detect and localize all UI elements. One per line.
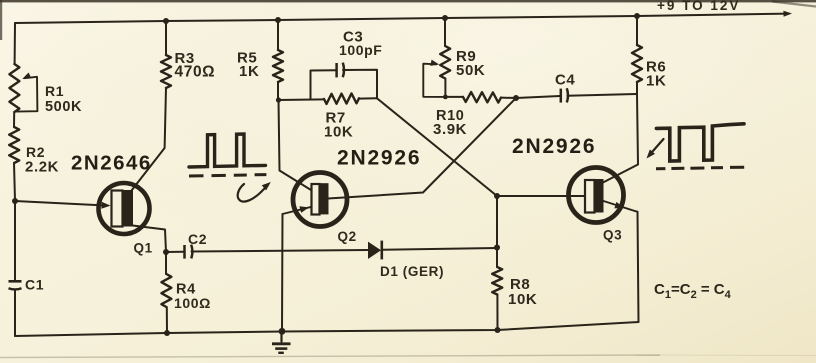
wire: +V supply top rail — [15, 11, 792, 23]
junction: R9 / R10 node — [443, 95, 448, 100]
capacitor C2 — [185, 245, 193, 259]
label: R7 10K — [324, 110, 353, 141]
junction: C2 tap on R4 branch — [163, 249, 169, 255]
svg-text:Q3: Q3 — [603, 228, 622, 243]
wire: R3/Q1-B2 vertical branch — [165, 21, 167, 55]
svg-text:2.2K: 2.2K — [25, 159, 59, 176]
waveform: Q3 output square wave — [656, 124, 744, 169]
wire: R9 branch vertical — [444, 18, 446, 46]
capacitor C4 — [561, 88, 568, 102]
svg-text:10K: 10K — [508, 291, 537, 308]
svg-text:50K: 50K — [456, 62, 485, 79]
transistor Q1 2N2646 (unijunction) — [99, 183, 150, 234]
wire: bottom ground rail — [15, 322, 639, 336]
svg-text:Q1: Q1 — [134, 241, 153, 256]
svg-text:2N2926: 2N2926 — [337, 147, 421, 170]
junction: top rail / R9 branch — [442, 15, 448, 21]
waveform pointer arrow (Q3 output) — [647, 139, 664, 159]
wire: Q2 emitter to ground rail — [281, 214, 284, 332]
svg-text:R1: R1 — [45, 83, 64, 99]
label: R6 1K — [646, 59, 666, 90]
junction: R5 / R7-C3 node — [276, 97, 281, 102]
resistor R2 2.2K — [9, 127, 19, 163]
svg-text:Q2: Q2 — [338, 229, 357, 244]
svg-text:D1 (GER): D1 (GER) — [380, 264, 444, 279]
svg-text:1K: 1K — [646, 73, 666, 90]
svg-text:2N2926: 2N2926 — [512, 135, 596, 158]
wire: cross-coupling diagonal (R7 node to Q3 base node) — [377, 98, 497, 196]
junction: Q3 base / cross-coupling node — [494, 193, 500, 199]
diode D1 (germanium) — [368, 241, 382, 260]
svg-text:100Ω: 100Ω — [174, 295, 211, 311]
label: R1 500K — [45, 83, 82, 115]
wire: R7/C3 parallel network frame — [279, 98, 325, 101]
wire: R8 vertical branch — [496, 196, 498, 247]
transistor Q2 2N2926 — [283, 173, 348, 227]
resistor R5 1K — [273, 50, 283, 82]
resistor R1 (potentiometer 500K) — [9, 64, 37, 112]
capacitor C1 — [9, 281, 22, 289]
label: R8 10K — [508, 276, 537, 308]
junction: bottom rail / R4 — [164, 330, 170, 336]
svg-text:2N2646: 2N2646 — [71, 152, 152, 175]
wire: R5 / Q2 base vertical branch — [277, 20, 279, 50]
label: R9 50K — [456, 48, 485, 79]
junction: top rail / R6 branch — [634, 13, 640, 19]
svg-text:C1: C1 — [25, 277, 44, 293]
resistor R6 1K — [632, 45, 642, 82]
junction: D1 / R8 node — [494, 245, 500, 251]
wire: Q3 emitter to ground rail — [638, 212, 639, 322]
waveform pointer arrow (Q1 output) — [238, 182, 271, 202]
svg-text:100pF: 100pF — [339, 42, 382, 58]
wire: Q3 base lead — [497, 195, 584, 197]
label: R5 1K — [237, 50, 259, 81]
wire: C2 to D1 row — [166, 251, 184, 253]
wire: R10 row to C4 — [445, 96, 463, 98]
capacitor C3 — [337, 63, 344, 78]
waveform: Q1 output pulse train — [189, 134, 266, 176]
junction: bottom rail / R8 — [495, 327, 501, 333]
label: C3 100pF — [339, 29, 382, 59]
resistor R10 3.9K — [463, 92, 501, 102]
ground — [272, 332, 291, 353]
svg-text:+9 TO 12V: +9 TO 12V — [657, 0, 740, 13]
svg-text:1K: 1K — [239, 63, 259, 80]
transistor Q3 2N2926 — [569, 168, 638, 223]
junction: top rail / R3 branch — [163, 18, 169, 24]
svg-text:470Ω: 470Ω — [175, 64, 216, 81]
resistor R3 470Ω — [161, 55, 171, 88]
svg-text:500K: 500K — [45, 99, 82, 115]
wire: left vertical branch (R1/R2/C1) — [14, 23, 16, 64]
label: R3 470Ω — [175, 50, 216, 81]
wire: R6 / Q3 collector vertical branch — [636, 16, 638, 45]
resistor R8 10K — [492, 267, 502, 295]
junction: top rail / R5 branch — [275, 17, 281, 23]
junction: left branch / Q1 emitter wire — [12, 198, 18, 204]
svg-text:C4: C4 — [555, 72, 575, 89]
resistor R7 10K — [324, 93, 359, 104]
svg-text:3.9K: 3.9K — [433, 121, 467, 138]
label: R2 2.2K — [25, 144, 59, 176]
junction: R10 / C4 / Q2 coupling node — [513, 95, 519, 101]
wire: Q1-B1 / C2 / R4 vertical branch — [133, 226, 167, 253]
wire: Q1 emitter lead from left branch — [15, 201, 103, 205]
svg-text:C2: C2 — [188, 231, 207, 247]
wire: Q2 collector lead and diagonal to R10 node — [328, 98, 516, 199]
label: R4 100Ω — [174, 282, 211, 312]
svg-text:10K: 10K — [324, 124, 353, 141]
label: R10 3.9K — [433, 108, 467, 138]
junction: bottom rail / Q2 emitter — [279, 328, 286, 335]
resistor R9 (potentiometer 50K) — [423, 46, 450, 97]
resistor R4 100Ω — [161, 274, 171, 307]
